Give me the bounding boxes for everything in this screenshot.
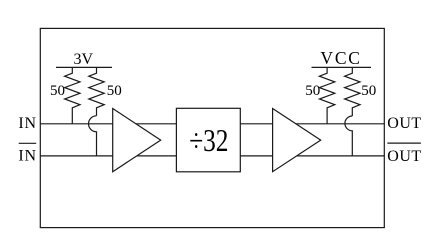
VCC supply rail bbox=[312, 66, 372, 68]
wire INbar net (bottom horizontal) bbox=[40, 155, 384, 157]
svg-text:50: 50 bbox=[361, 83, 376, 99]
svg-text:50: 50 bbox=[107, 83, 122, 99]
svg-text:3V: 3V bbox=[74, 51, 94, 68]
resistor 50 (VCC pull-up to OUT) bbox=[319, 67, 334, 123]
wire hop crossover at IN line (left) bbox=[89, 116, 97, 156]
overline of OUTbar bbox=[387, 142, 421, 144]
overline of INbar bbox=[19, 142, 37, 144]
chip outline bbox=[40, 28, 384, 227]
svg-text:OUT: OUT bbox=[387, 115, 421, 132]
wire hop crossover at OUT line (right) bbox=[345, 116, 352, 156]
svg-text:IN: IN bbox=[18, 115, 36, 132]
svg-text:÷32: ÷32 bbox=[189, 123, 228, 158]
wire IN net (top horizontal) bbox=[40, 123, 384, 125]
buffer amplifier A1 bbox=[113, 109, 161, 172]
3V supply rail bbox=[56, 66, 112, 68]
resistor 50 (3V pull-up to IN) bbox=[65, 67, 80, 123]
svg-text:IN: IN bbox=[18, 147, 36, 164]
divide-by-32 block bbox=[176, 108, 240, 172]
svg-text:50: 50 bbox=[50, 83, 65, 99]
resistor 50 (3V pull-up to INbar) bbox=[89, 67, 104, 115]
buffer amplifier A2 bbox=[273, 109, 321, 172]
svg-text:50: 50 bbox=[305, 83, 320, 99]
svg-text:OUT: OUT bbox=[387, 148, 421, 165]
resistor 50 (VCC pull-up to OUTbar) bbox=[345, 67, 360, 116]
svg-text:VCC: VCC bbox=[320, 48, 361, 68]
